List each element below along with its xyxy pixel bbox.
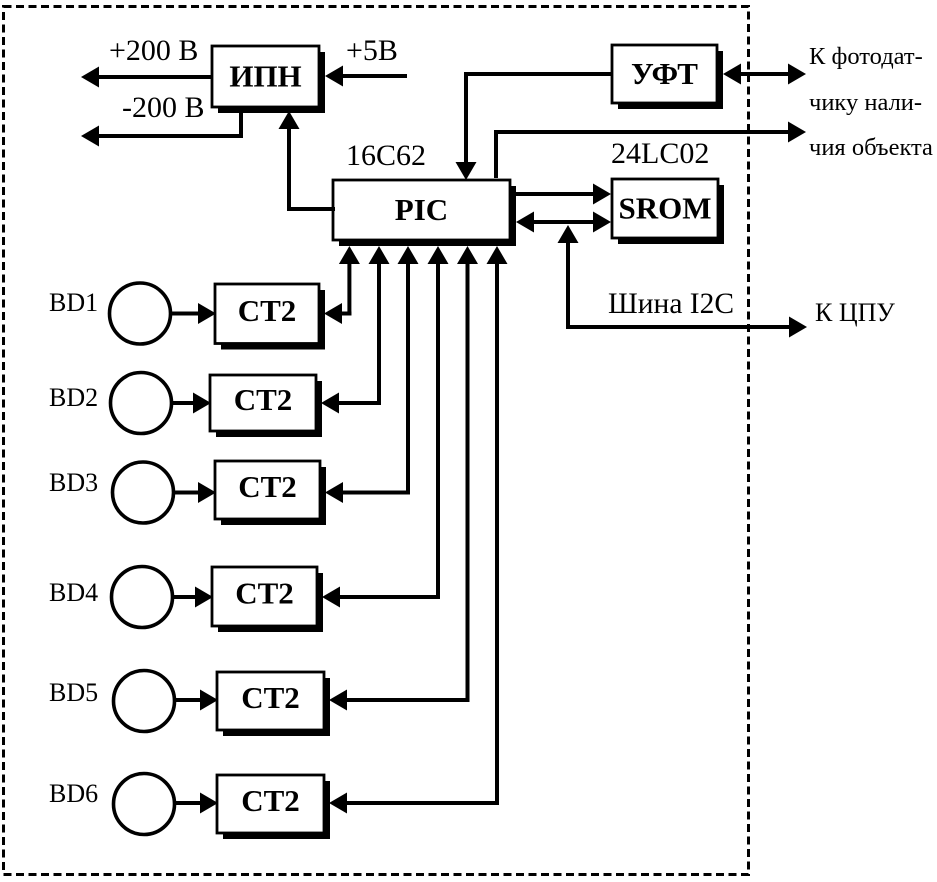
svg-text:BD3: BD3	[49, 468, 98, 497]
svg-text:СТ2: СТ2	[238, 293, 297, 328]
svg-text:16C62: 16C62	[346, 139, 426, 172]
svg-text:24LC02: 24LC02	[611, 137, 709, 170]
svg-text:К фотодат-: К фотодат-	[809, 43, 923, 70]
svg-text:чику нали-: чику нали-	[809, 89, 922, 116]
svg-text:PIC: PIC	[395, 192, 448, 227]
svg-text:-200 В: -200 В	[122, 91, 205, 124]
svg-text:BD2: BD2	[49, 383, 98, 412]
svg-text:BD6: BD6	[49, 779, 98, 808]
svg-text:ИПН: ИПН	[229, 59, 301, 94]
svg-text:BD5: BD5	[49, 678, 98, 707]
svg-text:+5В: +5В	[346, 34, 398, 67]
svg-text:СТ2: СТ2	[241, 783, 300, 818]
svg-text:чия объекта: чия объекта	[809, 134, 933, 161]
svg-text:SROM: SROM	[619, 191, 712, 226]
svg-text:СТ2: СТ2	[234, 382, 293, 417]
svg-text:+200 В: +200 В	[109, 34, 198, 67]
svg-text:СТ2: СТ2	[241, 680, 300, 715]
svg-text:BD4: BD4	[49, 578, 98, 607]
svg-text:УФТ: УФТ	[631, 56, 698, 91]
svg-text:BD1: BD1	[49, 288, 98, 317]
svg-text:К ЦПУ: К ЦПУ	[815, 298, 895, 327]
svg-text:СТ2: СТ2	[238, 469, 297, 504]
svg-text:СТ2: СТ2	[235, 576, 294, 611]
svg-text:Шина I2C: Шина I2C	[608, 288, 734, 320]
